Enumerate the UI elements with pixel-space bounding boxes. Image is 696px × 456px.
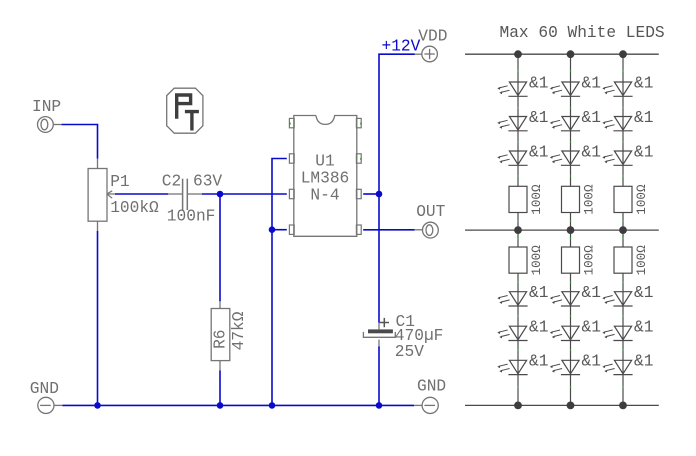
- svg-text:GND: GND: [30, 380, 59, 398]
- wire LED column 1 lower: [517, 230, 519, 405]
- junction node 7: [376, 402, 383, 409]
- wire LED column 2 lower: [570, 230, 572, 405]
- svg-text:&1: &1: [529, 109, 548, 127]
- junction LED column 1 at y=405.4: [514, 402, 522, 410]
- svg-text:&1: &1: [582, 74, 601, 92]
- junction node 4: [94, 402, 101, 409]
- svg-text:LM386: LM386: [301, 169, 350, 187]
- terminal INP: [38, 117, 62, 133]
- svg-text:&1: &1: [634, 109, 653, 127]
- svg-text:&1: &1: [582, 284, 601, 302]
- svg-text:&1: &1: [634, 284, 653, 302]
- LED D14: [497, 292, 527, 306]
- wire P1 wiper to C2: [115, 193, 168, 195]
- junction LED column 2 at y=405.4: [567, 402, 575, 410]
- LED array top rail: [465, 53, 659, 55]
- wire R6 bottom to GND rail: [219, 370, 221, 405]
- terminal OUT: [415, 222, 439, 238]
- wire INP to P1 top: [62, 125, 98, 159]
- resistor R2a 100 Ohm: [562, 186, 580, 212]
- LED D35: [602, 326, 632, 340]
- svg-text:R6: R6: [212, 329, 230, 348]
- svg-text:&1: &1: [529, 284, 548, 302]
- wire GND rail: [62, 404, 414, 406]
- svg-text:&1: &1: [582, 109, 601, 127]
- resistor R3a 100 Ohm: [614, 186, 632, 212]
- LED D12: [497, 117, 527, 131]
- resistor R6 47k: [211, 301, 230, 370]
- svg-text:GND: GND: [417, 378, 446, 396]
- svg-text:100Ω: 100Ω: [635, 245, 649, 276]
- resistor R3b 100 Ohm: [614, 247, 632, 273]
- LED D13: [497, 151, 527, 165]
- resistor R1a 100 Ohm: [509, 186, 527, 212]
- svg-text:&1: &1: [529, 319, 548, 337]
- wire C2 to U1 pin 3: [202, 193, 287, 195]
- junction LED column 3 at y=405.4: [619, 402, 627, 410]
- junction node 2: [376, 191, 383, 198]
- LED D36: [602, 360, 632, 374]
- LED D16: [497, 360, 527, 374]
- LED D24: [550, 292, 580, 306]
- wire U1 pin 2 down to GND rail: [272, 159, 287, 406]
- LED D32: [602, 117, 632, 131]
- svg-text:100Ω: 100Ω: [530, 245, 544, 276]
- svg-text:100kΩ: 100kΩ: [110, 199, 159, 217]
- LED D25: [550, 326, 580, 340]
- junction node 3: [269, 226, 276, 233]
- potentiometer P1 100k: [88, 159, 115, 231]
- svg-text:100Ω: 100Ω: [635, 184, 649, 215]
- LED D34: [602, 292, 632, 306]
- junction node 1: [217, 191, 224, 198]
- svg-text:+12V: +12V: [382, 38, 421, 56]
- svg-text:&1: &1: [582, 143, 601, 161]
- wire LED column 1 upper: [517, 54, 519, 230]
- svg-text:47kΩ: 47kΩ: [230, 311, 248, 350]
- svg-text:N-4: N-4: [310, 186, 339, 204]
- terminal GND right: [414, 397, 438, 413]
- wire net slivers column at x=518: [517, 70, 519, 72]
- wire U1 pin 6 to +12V line: [363, 193, 379, 195]
- junction node 6: [269, 402, 276, 409]
- svg-text:&1: &1: [529, 143, 548, 161]
- svg-text:&1: &1: [529, 353, 548, 371]
- wire LED column 3 lower: [622, 230, 624, 405]
- svg-text:&1: &1: [634, 353, 653, 371]
- LED D33: [602, 151, 632, 165]
- junction LED column 1 at y=54.2: [514, 50, 522, 58]
- PT logo: [167, 88, 203, 133]
- svg-text:&1: &1: [582, 319, 601, 337]
- junction LED column 3 at y=54.2: [619, 50, 627, 58]
- svg-text:&1: &1: [634, 319, 653, 337]
- svg-text:25V: 25V: [395, 343, 424, 361]
- wire U1 pin 5 to OUT: [363, 229, 414, 231]
- wire net slivers column at x=570: [570, 70, 572, 72]
- svg-text:VDD: VDD: [418, 28, 447, 46]
- svg-text:P1: P1: [110, 173, 129, 191]
- svg-text:Max 60 White LEDS: Max 60 White LEDS: [500, 24, 665, 42]
- svg-text:100Ω: 100Ω: [530, 184, 544, 215]
- capacitor C1 470uF electrolytic: [363, 318, 395, 346]
- wire LED column 3 upper: [622, 54, 624, 230]
- terminal VDD +12V: [415, 46, 438, 62]
- wire +12V terminal down to C1: [379, 54, 415, 323]
- svg-text:INP: INP: [32, 98, 61, 116]
- LED D15: [497, 326, 527, 340]
- LED array middle rail (OUT): [465, 229, 659, 231]
- LED D11: [497, 82, 527, 96]
- wire node to R6 top: [219, 194, 221, 301]
- svg-text:OUT: OUT: [416, 203, 445, 221]
- junction LED column 2 at y=230.1: [567, 226, 575, 234]
- LED D21: [550, 82, 580, 96]
- resistor R1b 100 Ohm: [509, 247, 527, 273]
- wire C1 bottom to GND rail: [378, 346, 380, 405]
- LED D26: [550, 360, 580, 374]
- junction LED column 3 at y=230.1: [619, 226, 627, 234]
- junction LED column 1 at y=230.1: [514, 226, 522, 234]
- junction LED column 2 at y=54.2: [567, 50, 575, 58]
- svg-text:&1: &1: [529, 74, 548, 92]
- svg-text:100nF: 100nF: [167, 208, 216, 226]
- wire LED column 2 upper: [570, 54, 572, 230]
- svg-text:&1: &1: [634, 143, 653, 161]
- svg-text:100Ω: 100Ω: [582, 245, 596, 276]
- wire net slivers column at x=623: [622, 70, 624, 72]
- terminal GND left: [38, 397, 62, 413]
- svg-text:&1: &1: [634, 74, 653, 92]
- svg-text:63V: 63V: [193, 172, 222, 190]
- LED D23: [550, 151, 580, 165]
- junction node 5: [217, 402, 224, 409]
- svg-text:&1: &1: [582, 353, 601, 371]
- svg-text:100Ω: 100Ω: [582, 184, 596, 215]
- wire P1 bottom to GND rail: [97, 231, 99, 406]
- svg-text:C2: C2: [162, 172, 181, 190]
- svg-text:U1: U1: [315, 153, 334, 171]
- LED array bottom rail (GND): [465, 404, 659, 406]
- capacitor C2 100nF: [168, 179, 202, 210]
- svg-text:470µF: 470µF: [395, 327, 444, 345]
- op-amp U1 LM386 N-4: [289, 116, 362, 237]
- LED D22: [550, 117, 580, 131]
- resistor R2b 100 Ohm: [562, 247, 580, 273]
- LED D31: [602, 82, 632, 96]
- wire U1 pin 4 to vertical: [272, 229, 287, 231]
